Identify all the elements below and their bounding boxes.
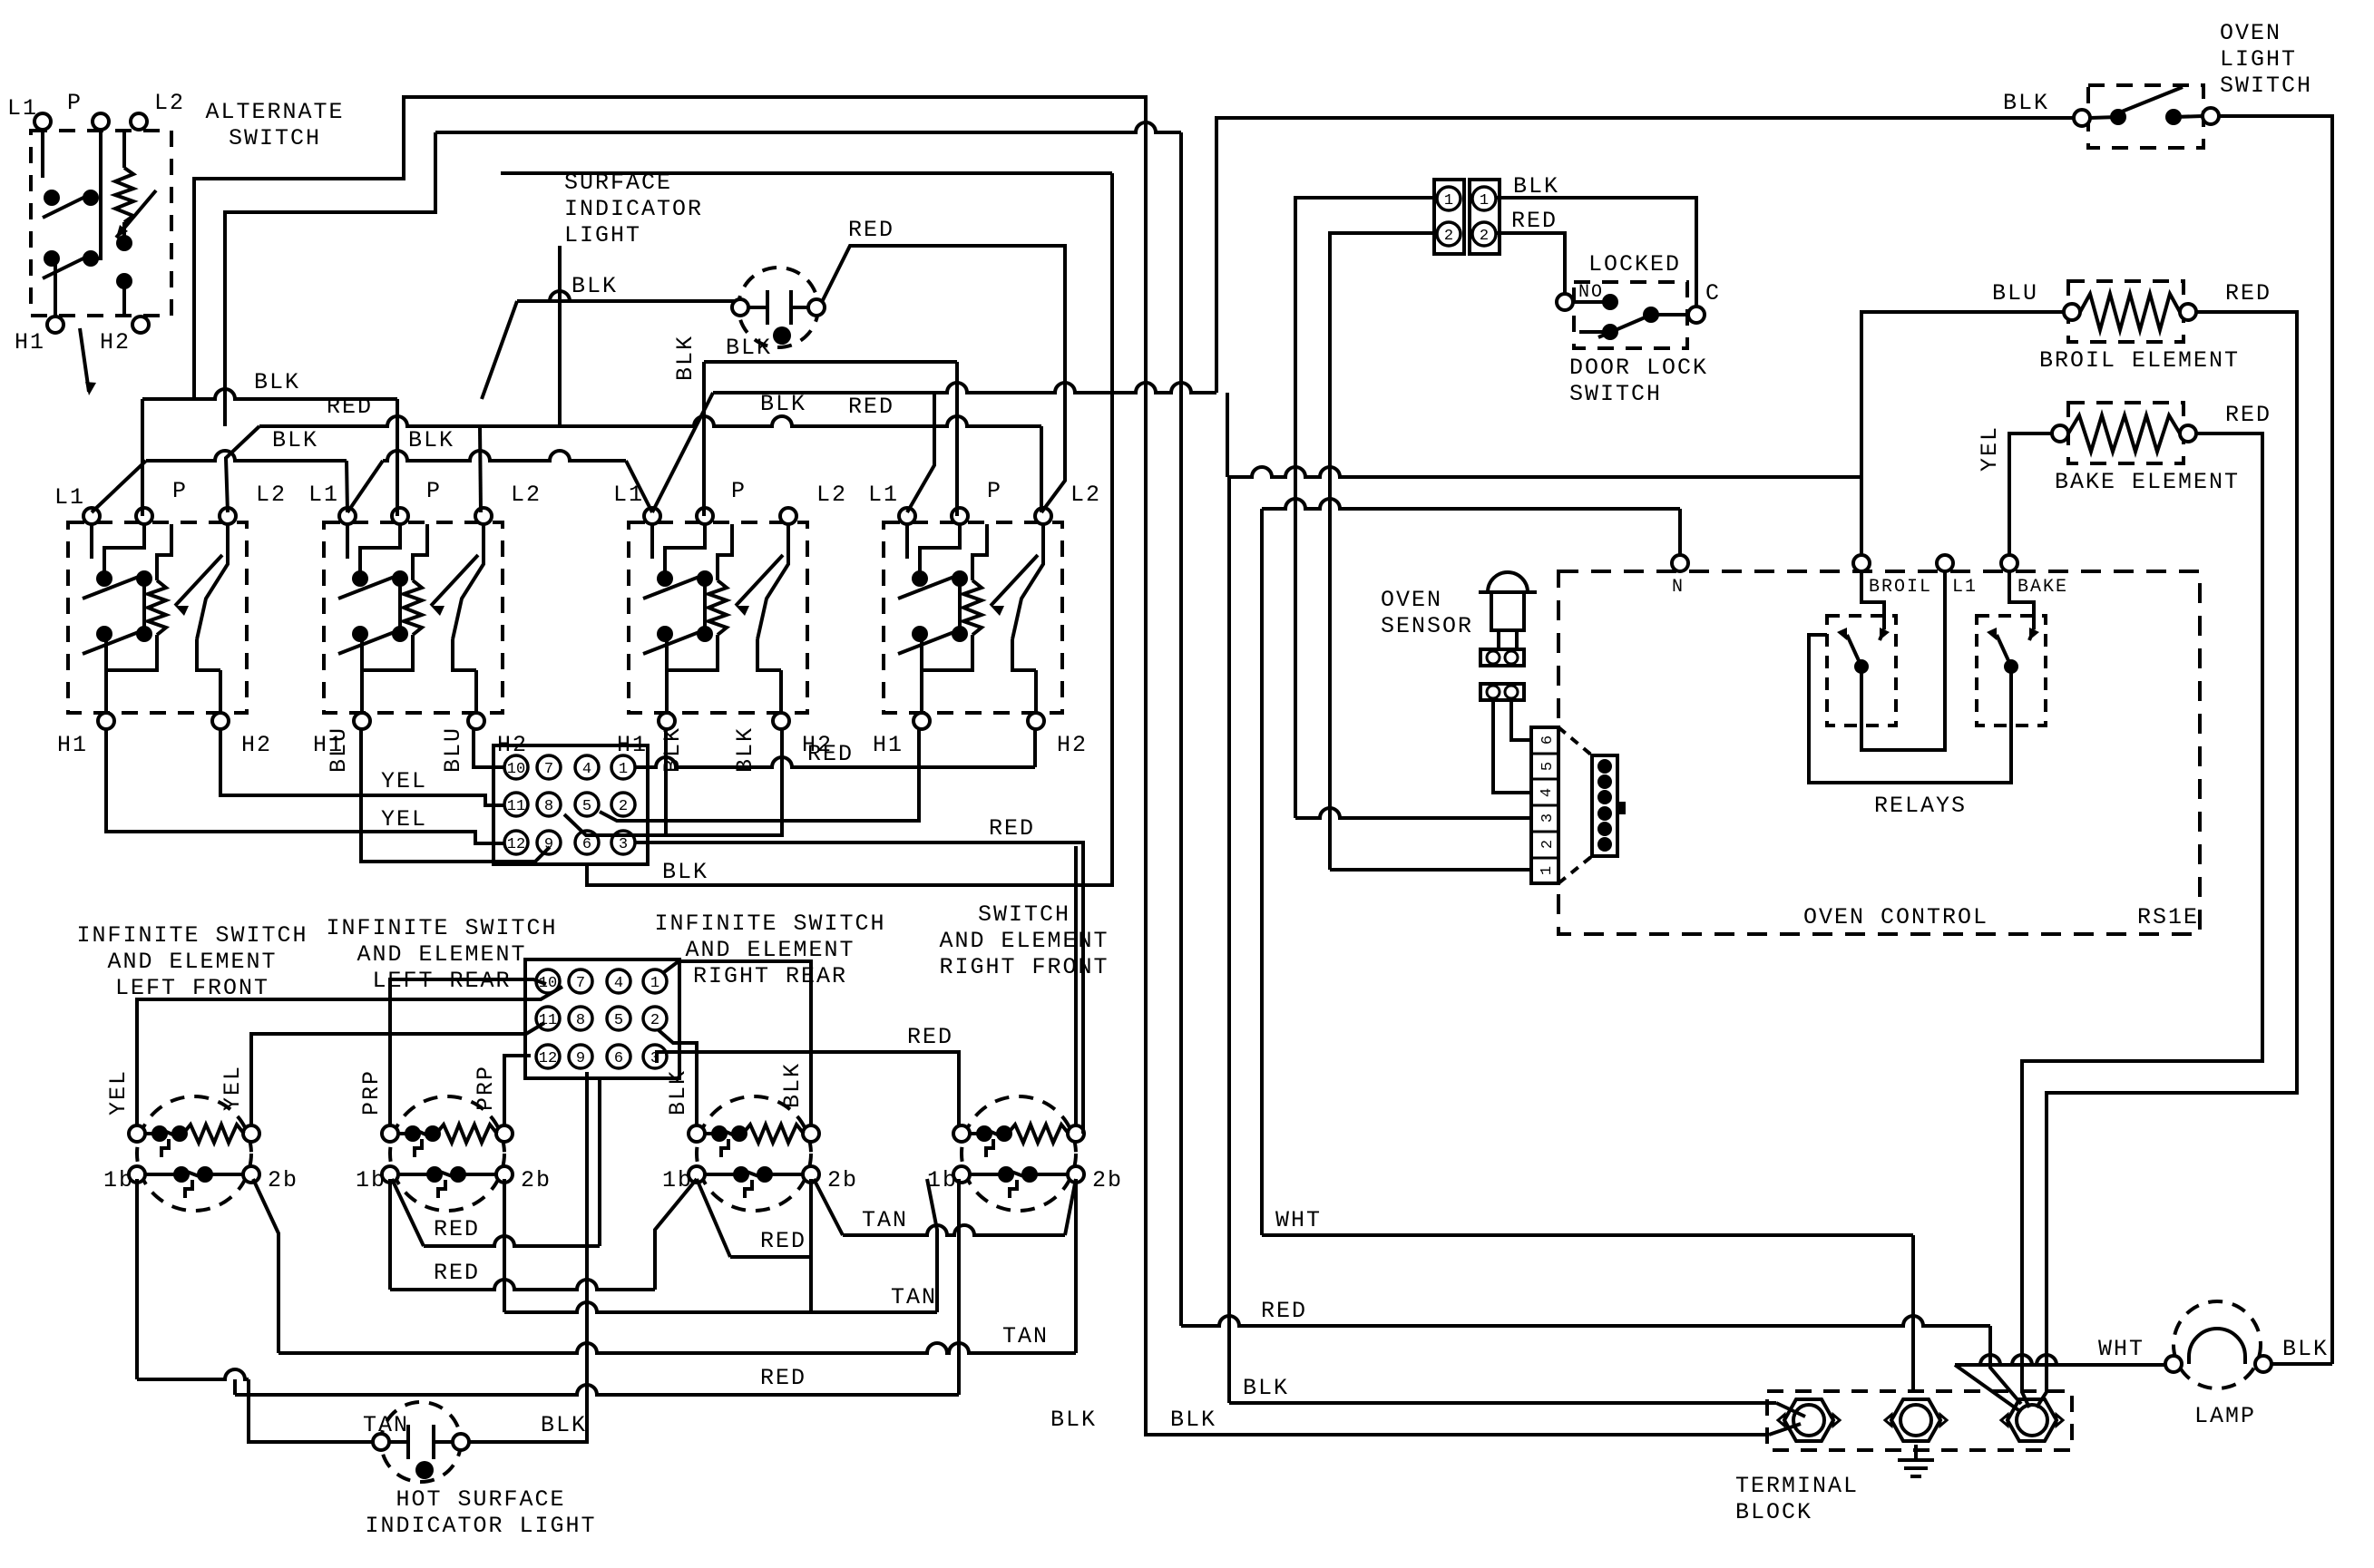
CN1 pin 5: [575, 793, 599, 816]
svg-text:OVEN CONTROL: OVEN CONTROL: [1803, 904, 1988, 930]
SW1 (left front surface switch) terminal P: [136, 508, 152, 524]
svg-text:H2: H2: [241, 732, 272, 758]
svg-text:1: 1: [1539, 866, 1556, 875]
wire nut1 lower lead: [1769, 1424, 1801, 1435]
SW1 (left front surface switch) bottom bar H1: [104, 670, 108, 713]
wire lamp blk: [2271, 1362, 2332, 1366]
relay BAKE (K2) arrow2: [1987, 628, 1997, 640]
LF elem contact 2: [171, 1125, 188, 1142]
svg-text:RED: RED: [760, 1365, 806, 1391]
wire TAN 2bLR-1bRF: [504, 1302, 937, 1312]
bake element terminal r: [2180, 425, 2196, 442]
oven light switch terminal r: [2203, 108, 2219, 124]
SW2 (left rear surface switch) heater resistor: [404, 580, 422, 635]
door lock terminal NO: [1557, 294, 1573, 310]
SW4 (right front surface switch) contact a2: [952, 570, 968, 587]
wire 2bLF diag: [253, 1179, 278, 1353]
door lock contact NO: [1602, 294, 1618, 310]
svg-text:BLK: BLK: [408, 427, 454, 453]
oven sensor conn2 hole a: [1487, 686, 1500, 698]
svg-text:LAMP: LAMP: [2194, 1403, 2256, 1429]
hsi electrode left: [389, 1440, 408, 1444]
SW3 (right rear surface switch) thermostat blade: [757, 524, 788, 639]
svg-text:1: 1: [650, 975, 659, 992]
svg-text:8: 8: [576, 1012, 585, 1029]
SW4 (right front surface switch) blade a: [898, 573, 963, 599]
svg-text:PRP: PRP: [473, 1065, 499, 1111]
SW3 (right rear surface switch) thermostat arrow: [736, 555, 783, 616]
SW2 (left rear surface switch) thermostat arrow: [431, 555, 478, 616]
SW2 (left rear surface switch) terminal H1: [354, 713, 370, 729]
SW2 (left rear surface switch) terminal P: [392, 508, 408, 524]
SW1 (left front surface switch) bottom bar: [106, 635, 157, 670]
wire strip pin3: [1295, 808, 1531, 818]
svg-text:2: 2: [619, 798, 628, 815]
relay BROIL (K1) blade: [1847, 635, 1861, 667]
terminal nut nut 2 (ground): [1885, 1399, 1947, 1441]
SW4 (right front surface switch) bottom bar2: [1012, 639, 1036, 670]
svg-text:P: P: [987, 478, 1002, 504]
SW4 (right front surface switch) blade b: [898, 628, 963, 654]
door connector A pin 1: [1437, 187, 1461, 210]
SW4 (right front surface switch) heater top wire: [972, 524, 987, 580]
SW3 (right rear surface switch) blade b: [643, 628, 708, 654]
LF sw contact 2: [197, 1166, 213, 1183]
SW4 (right front surface switch) terminal L1: [899, 508, 915, 524]
SW2 (left rear surface switch) contact bar a2-b2: [398, 579, 402, 634]
hsi dot: [415, 1461, 434, 1479]
wire RR right BLK: [664, 961, 811, 1125]
svg-text:RED: RED: [2225, 280, 2271, 307]
SW2 (left rear surface switch) thermostat blade: [453, 524, 484, 639]
svg-text:RED: RED: [434, 1216, 480, 1242]
SW4 (right front surface switch) terminal H2: [1028, 713, 1044, 729]
oven sensor wire b: [1511, 700, 1531, 740]
oven light switch wire l: [2090, 117, 2118, 118]
CN1 pin 2: [611, 793, 635, 816]
RF elem contact 1: [976, 1125, 992, 1142]
alternate switch blade b: [43, 253, 94, 278]
SW1 (left front surface switch) terminal L2: [220, 508, 236, 524]
door connector B pin 2: [1472, 222, 1496, 246]
LF terminal 1b: [129, 1166, 145, 1183]
CN2 pin 6: [607, 1045, 630, 1068]
oven light switch wire r: [2174, 116, 2203, 117]
svg-text:BLK: BLK: [1170, 1407, 1216, 1433]
LR elem terminal right: [496, 1125, 513, 1142]
hot surface indicator light body: [381, 1402, 461, 1482]
wire TAN 2bRR diag: [814, 1179, 843, 1235]
wire H1_2 BLU: [361, 729, 550, 862]
relay BROIL (K1) arrow in: [1880, 628, 1890, 640]
SW3 (right rear surface switch) contact a1: [657, 570, 673, 587]
svg-text:P: P: [67, 90, 83, 116]
wire relay loop: [1809, 635, 2011, 783]
RF elem terminal left: [953, 1125, 970, 1142]
svg-text:BLK: BLK: [2003, 90, 2049, 116]
wire LF right YEL: [251, 1023, 544, 1125]
oven light switch contact 2: [2165, 109, 2182, 125]
wire L1_2 from bus: [347, 461, 347, 512]
alternate switch contact b1: [44, 250, 60, 267]
ground bar 2: [1904, 1466, 1928, 1470]
SW2 (left rear surface switch) contact b1 to H bar: [360, 634, 362, 670]
connector block CN1: [493, 745, 648, 864]
svg-text:BLK: BLK: [1243, 1375, 1289, 1401]
svg-text:7: 7: [576, 975, 585, 992]
svg-text:2b: 2b: [827, 1167, 858, 1193]
SW2 (left rear surface switch) L1 pole wire: [346, 524, 349, 559]
wire door pin1 left: [1295, 198, 1437, 818]
wire BLK nut1 diag: [1776, 1403, 1805, 1417]
SW4 (right front surface switch) terminal H1: [913, 713, 930, 729]
LF sw blade: [180, 1169, 209, 1180]
wire hsi BLK: [461, 1072, 587, 1442]
svg-text:BLK: BLK: [2282, 1336, 2329, 1362]
relay BAKE (K2) arm lead: [2029, 629, 2034, 640]
svg-text:BLU: BLU: [440, 726, 466, 773]
LR sw blade: [433, 1169, 462, 1180]
wire RED bottom: [1181, 1316, 1990, 1326]
svg-text:H1: H1: [873, 732, 904, 758]
wire 2bRR down: [809, 1179, 813, 1312]
wire H2_1 YEL: [220, 729, 504, 805]
broil element terminal l: [2064, 304, 2080, 320]
SW1 (left front surface switch) heater resistor: [148, 580, 166, 635]
wire v617: [558, 246, 562, 426]
svg-text:5: 5: [582, 798, 591, 815]
strip pin 2: [1531, 832, 1558, 849]
SW3 (right rear surface switch) contact b2: [697, 626, 713, 642]
wire RED to nut3: [1990, 1326, 2021, 1404]
wire bake YEL: [2009, 433, 2052, 563]
svg-text:WHT: WHT: [1275, 1207, 1322, 1233]
bake element terminal l: [2052, 425, 2068, 442]
LR elem resistor: [436, 1125, 497, 1143]
surface indicator light body: [738, 268, 818, 347]
alternate switch pointer arrow: [80, 328, 96, 395]
svg-text:YEL: YEL: [381, 768, 427, 794]
svg-text:L1: L1: [1952, 577, 1978, 598]
wire RED 1bLR-1bRR: [390, 1280, 655, 1290]
LF elem resistor: [183, 1125, 244, 1143]
infinite switch RR body: [697, 1096, 811, 1211]
wire BLK bus P1-P2: [142, 389, 397, 399]
wire LR right PRP: [504, 1056, 531, 1125]
wire WHT lamp diag to nut3: [1955, 1365, 2021, 1412]
SW2 (left rear surface switch) bottom bar H2: [474, 670, 478, 713]
svg-text:BLK: BLK: [662, 859, 708, 885]
SW1 (left front surface switch) thermostat blade: [197, 524, 228, 639]
plug pin dot 3: [1597, 790, 1612, 804]
LR elem blade: [411, 1128, 436, 1139]
alternate switch bar: [50, 257, 54, 260]
svg-text:6: 6: [614, 1050, 623, 1067]
SW1 (left front surface switch) terminal H1: [98, 713, 114, 729]
ground bar 3: [1910, 1475, 1921, 1478]
CN2 pin 2: [643, 1007, 667, 1030]
door lock contact com: [1643, 307, 1659, 323]
LR elem contact 2: [425, 1125, 441, 1142]
alternate switch terminal H1: [47, 317, 64, 333]
SW2 (left rear surface switch) bottom bar2: [453, 639, 476, 670]
wire v1353 lower: [1227, 477, 1231, 1403]
wire RED 1bRR diag2: [697, 1179, 730, 1257]
wire RED 1bRR diag: [655, 1179, 697, 1290]
alternate switch terminal H2: [132, 317, 149, 333]
SW2 (left rear surface switch) terminal L2: [475, 508, 492, 524]
svg-text:H2: H2: [1057, 732, 1088, 758]
wire RED 1bLR down: [388, 1179, 392, 1290]
surface light terminal right: [808, 299, 825, 316]
svg-text:1b: 1b: [103, 1167, 134, 1193]
plug pin dot 4: [1597, 806, 1612, 821]
CN1 pin 12: [504, 831, 528, 854]
RR bimetal: [721, 1139, 728, 1157]
RR sw wire l: [704, 1173, 741, 1176]
CN1 pin 1: [611, 755, 635, 779]
SW3 (right rear surface switch) L1 pole wire: [650, 524, 654, 559]
alternate switch heater resistor: [115, 168, 133, 222]
RR elem contact 1: [711, 1125, 728, 1142]
terminal block body: [1767, 1391, 2072, 1450]
svg-text:L2: L2: [816, 482, 847, 508]
lamp terminal right: [2255, 1356, 2271, 1372]
wire L1_3 diag up: [652, 393, 713, 512]
svg-text:3: 3: [619, 836, 628, 853]
bake element resistor: [2068, 415, 2180, 452]
SW2 (left rear surface switch) P pole wire: [360, 524, 400, 579]
wire TAN 2bRF diag: [1065, 1179, 1076, 1235]
svg-text:HOT SURFACEINDICATOR LIGHT: HOT SURFACEINDICATOR LIGHT: [365, 1486, 596, 1539]
relay BROIL (K1) coil wire: [1861, 571, 1884, 629]
surface light terminal left: [732, 299, 748, 316]
wire LF left YEL: [137, 987, 562, 1125]
SW2 (left rear surface switch) contact b1: [352, 626, 368, 642]
wire 1bRF diag: [927, 1179, 937, 1312]
RR elem terminal right: [803, 1125, 819, 1142]
svg-text:12: 12: [539, 1050, 557, 1067]
wire N down: [1678, 509, 1682, 555]
oven control terminal N: [1672, 555, 1688, 571]
wire RED 1bRR stub: [730, 1255, 811, 1259]
LF sw wire r: [205, 1173, 244, 1176]
LR terminal 2b: [496, 1166, 513, 1183]
strip pin 5: [1531, 754, 1558, 771]
wire L1_3 diag from 508: [626, 461, 652, 512]
CN1 pin 10: [504, 755, 528, 779]
SW3 (right rear surface switch) bottom bar H1: [665, 670, 669, 713]
SW2 (left rear surface switch) bottom bar: [362, 635, 413, 670]
door connector plug A: [1434, 180, 1464, 254]
CN2 pin 7: [569, 969, 592, 993]
svg-text:YEL: YEL: [220, 1065, 246, 1111]
oven light switch contact 1: [2110, 109, 2126, 125]
svg-text:1b: 1b: [927, 1167, 958, 1193]
wire BROIL feed corner: [1226, 393, 1229, 477]
wire P4 down: [955, 362, 959, 516]
wire BLK bus P3-P4: [704, 360, 957, 364]
SW1 (left front surface switch) contact a1: [96, 570, 112, 587]
door lock wire NC: [1579, 330, 1610, 334]
oven sensor leads2: [1515, 630, 1519, 649]
svg-text:2b: 2b: [1092, 1167, 1123, 1193]
door connector A pin 2: [1437, 222, 1461, 246]
ground lead: [1914, 1445, 1918, 1460]
wire top staircase 1 (L1 feed): [194, 97, 1769, 1435]
CN2 pin 10: [536, 969, 560, 993]
wire 1bRF down: [957, 1179, 961, 1395]
LF elem contact 1: [151, 1125, 168, 1142]
surface light dot: [773, 326, 791, 345]
wire H1_4 to pin5: [600, 729, 919, 821]
SW3 (right rear surface switch) terminal L2: [780, 508, 796, 524]
SW1 (left front surface switch) contact bar a2-b2: [142, 579, 146, 634]
svg-text:6: 6: [582, 836, 591, 853]
surface switch SW3 (right rear surface switch) body: [629, 522, 807, 713]
wire L1_1 diag: [92, 461, 146, 512]
svg-text:L2: L2: [511, 482, 542, 508]
wire BLK bus L1_2-L1_3: [383, 451, 626, 461]
SW3 (right rear surface switch) terminal H1: [659, 713, 675, 729]
RF elem resistor: [1008, 1125, 1069, 1143]
connector block CN2: [525, 959, 679, 1078]
SW2 (left rear surface switch) heater top wire: [413, 524, 427, 580]
hsi terminal left: [373, 1434, 389, 1450]
wire light BLK: [517, 291, 735, 301]
SW1 (left front surface switch) bottom bar2: [197, 639, 220, 670]
RF sw blade: [1004, 1169, 1033, 1180]
SW4 (right front surface switch) bottom bar: [922, 635, 972, 670]
svg-text:4: 4: [582, 761, 591, 778]
RR sw contact 1: [733, 1166, 749, 1183]
door lock terminal C: [1688, 307, 1705, 323]
wire v274 to light: [249, 1379, 381, 1442]
svg-text:2: 2: [650, 1012, 659, 1029]
surface light electrode bar l: [766, 290, 769, 325]
oven sensor connector 2: [1480, 684, 1524, 700]
RR sw bimetal: [745, 1180, 752, 1198]
wire broil BLU: [1861, 312, 2064, 563]
svg-text:6: 6: [1539, 735, 1557, 745]
alternate switch P pole: [91, 130, 101, 258]
RF elem wire: [969, 1132, 984, 1135]
LR elem contact 1: [405, 1125, 421, 1142]
wire light BLK diag: [482, 301, 517, 399]
svg-text:LOCKED: LOCKED: [1588, 251, 1681, 278]
alternate switch c link: [122, 222, 126, 243]
svg-text:YEL: YEL: [381, 806, 427, 833]
oven control terminal BAKE: [2001, 555, 2017, 571]
wire RED-d: [235, 1385, 959, 1395]
SW1 (left front surface switch) contact b2: [136, 626, 152, 642]
svg-text:RED: RED: [907, 1024, 953, 1050]
lamp filament arc: [2189, 1329, 2245, 1364]
svg-text:1: 1: [1444, 192, 1453, 209]
SW3 (right rear surface switch) contact a2: [697, 570, 713, 587]
RR elem contact 2: [731, 1125, 747, 1142]
alternate switch terminal L2: [131, 113, 147, 130]
svg-text:P: P: [172, 478, 188, 504]
CN2 pin 1: [643, 969, 667, 993]
wire bake RED: [2022, 433, 2262, 1407]
infinite switch LF body: [137, 1096, 251, 1211]
svg-text:H1: H1: [57, 732, 88, 758]
wire strip pin1: [1330, 868, 1531, 872]
RF terminal 1b: [953, 1166, 970, 1183]
strip pin 3: [1531, 805, 1558, 823]
SW3 (right rear surface switch) terminal H2: [773, 713, 789, 729]
svg-text:4: 4: [614, 975, 623, 992]
wire relay1 bottom to L1: [1861, 571, 1945, 750]
RR terminal 2b: [803, 1166, 819, 1183]
alternate switch contact b2: [83, 250, 99, 267]
LF bimetal: [161, 1139, 169, 1157]
plug pin dot 1: [1597, 759, 1612, 774]
wire L2_4 down: [1040, 426, 1043, 512]
relay BAKE (K2) pivot: [2004, 659, 2018, 674]
oven sensor conn1 hole a: [1487, 651, 1500, 664]
SW3 (right rear surface switch) contact b1: [657, 626, 673, 642]
LR elem wire: [397, 1132, 413, 1135]
SW1 (left front surface switch) blade b: [83, 628, 148, 654]
SW1 (left front surface switch) heater top wire: [157, 524, 171, 580]
svg-text:3: 3: [1539, 813, 1557, 823]
SW4 (right front surface switch) bottom bar H1: [920, 670, 923, 713]
RF elem terminal right: [1068, 1125, 1084, 1142]
RF bimetal: [986, 1139, 993, 1157]
wire RED 1bLR diag: [392, 1179, 424, 1246]
svg-text:H2: H2: [100, 329, 131, 355]
wire RED bus L2: [259, 416, 1041, 426]
svg-text:H1: H1: [15, 329, 45, 355]
SW2 (left rear surface switch) terminal L1: [339, 508, 356, 524]
strip pin 1: [1531, 858, 1558, 875]
svg-text:4: 4: [1539, 788, 1556, 797]
bake element body: [2068, 403, 2183, 463]
lamp terminal left: [2165, 1356, 2182, 1372]
wire L1_4 riser: [907, 393, 934, 512]
alternate switch thermostat arrow: [116, 190, 156, 238]
svg-text:L1: L1: [308, 482, 339, 508]
svg-text:RED: RED: [760, 1228, 806, 1254]
svg-text:YEL: YEL: [1977, 425, 2003, 472]
alternate switch contact a2: [83, 190, 99, 206]
svg-text:10: 10: [507, 761, 525, 778]
strip pin 4: [1531, 779, 1558, 797]
SW2 (left rear surface switch) blade a: [338, 573, 404, 599]
wire WHT to nut2: [1911, 1235, 1915, 1391]
relay BROIL (K1) pivot: [1854, 659, 1869, 674]
svg-text:RED: RED: [434, 1260, 480, 1286]
door lock wire C: [1651, 313, 1688, 317]
LR sw bimetal: [438, 1180, 445, 1198]
RR sw wire r: [765, 1173, 804, 1176]
svg-text:7: 7: [544, 761, 553, 778]
wire L2_2 up: [480, 426, 481, 512]
SW4 (right front surface switch) bottom bar H2: [1034, 670, 1038, 713]
LF elem terminal left: [129, 1125, 145, 1142]
svg-text:BLK: BLK: [254, 369, 300, 395]
svg-text:BLK: BLK: [672, 335, 699, 381]
LR elem terminal left: [382, 1125, 398, 1142]
plug pin dot 2: [1597, 774, 1612, 789]
SW4 (right front surface switch) contact a1: [912, 570, 928, 587]
wire 2bLR down: [503, 1179, 506, 1312]
svg-text:1b: 1b: [356, 1167, 386, 1193]
svg-text:BLU: BLU: [326, 726, 352, 773]
svg-text:P: P: [731, 478, 747, 504]
